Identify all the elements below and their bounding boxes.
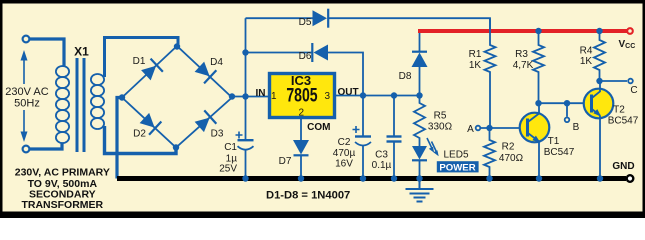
svg-text:16V: 16V (335, 159, 353, 170)
svg-text:230V, AC PRIMARY: 230V, AC PRIMARY (15, 166, 110, 178)
ground bus (117, 176, 626, 181)
node C1 tap (242, 93, 248, 99)
svg-text:470µ: 470µ (333, 148, 356, 159)
diode D1 (140, 59, 163, 82)
wire D7 to bus (300, 156, 302, 179)
wire T1 emitter to bus (538, 142, 540, 179)
svg-text:D1-D8 = 1N4007: D1-D8 = 1N4007 (266, 190, 350, 202)
transistor T2 (584, 81, 614, 118)
svg-text:C1: C1 (224, 142, 237, 153)
svg-text:230V AC: 230V AC (5, 86, 48, 98)
svg-text:GND: GND (612, 161, 634, 172)
resistor R5 (414, 96, 425, 147)
svg-text:4,7K: 4,7K (513, 60, 534, 71)
wire LED to bus (419, 161, 421, 179)
wire secondary bottom to bridge (105, 126, 177, 154)
svg-text:BC547: BC547 (608, 116, 639, 127)
node R4 on rail (596, 28, 602, 34)
svg-text:POWER: POWER (439, 162, 475, 173)
wire D5 to red rail (328, 18, 490, 31)
diode D5 (313, 9, 329, 28)
AC input terminal bottom (23, 146, 30, 153)
svg-text:D8: D8 (399, 71, 412, 82)
svg-text:C: C (630, 85, 637, 96)
AC source arrow (21, 50, 28, 142)
svg-text:D4: D4 (210, 57, 223, 68)
diode D2 (138, 111, 161, 134)
svg-text:A: A (467, 124, 474, 135)
svg-text:25V: 25V (219, 164, 237, 175)
svg-text:B: B (573, 122, 580, 133)
bridge rectifier frame (122, 46, 232, 148)
op-amp/regulator IC3 7805 (270, 74, 335, 118)
svg-text:TRANSFORMER: TRANSFORMER (21, 199, 103, 211)
wire D5 branch riser (245, 18, 247, 96)
svg-text:D5: D5 (299, 17, 312, 28)
node bridge right (229, 93, 235, 99)
node T1 collector (535, 100, 541, 106)
node regulator output at D8/R5 (416, 92, 422, 98)
svg-text:LED5: LED5 (443, 150, 468, 161)
wire IC pin2 down (300, 118, 302, 141)
svg-text:X1: X1 (74, 45, 89, 59)
svg-text:D6: D6 (299, 51, 312, 62)
label transformer description (15, 166, 110, 211)
wire R4 to node C (600, 80, 628, 82)
svg-text:470Ω: 470Ω (499, 153, 524, 164)
wire D6 run (246, 52, 314, 54)
svg-text:R1: R1 (469, 49, 482, 60)
node bridge top (174, 43, 180, 49)
resistor R2 (484, 128, 495, 179)
svg-text:D2: D2 (133, 129, 146, 140)
wire IC OUT run (335, 95, 420, 97)
wire bridge to IC IN (232, 96, 268, 98)
wire secondary top to bridge (105, 38, 179, 78)
svg-text:2: 2 (299, 108, 305, 119)
node T1 emitter on bus (536, 175, 542, 181)
wire T1 collector to T2 base (539, 102, 592, 104)
svg-text:IN: IN (256, 88, 266, 99)
diode D4 (193, 60, 216, 83)
capacitor C1 (238, 97, 254, 179)
node D7 on bus (298, 175, 304, 181)
node B terminal (565, 118, 570, 123)
svg-text:1: 1 (271, 91, 277, 102)
node R2 on bus (486, 175, 492, 181)
ground symbol (406, 181, 434, 202)
label POWER (437, 161, 479, 172)
node B tap (564, 100, 570, 106)
wire D8 anode down (419, 67, 421, 96)
svg-text:C2: C2 (338, 137, 351, 148)
node LED/ground on bus (416, 175, 422, 181)
node bridge left (119, 94, 125, 100)
resistor R4 (594, 33, 605, 81)
LED5 (412, 146, 427, 160)
node R3 on rail (535, 28, 541, 34)
node D6 tap (242, 49, 248, 55)
svg-text:T1: T1 (548, 136, 560, 147)
svg-text:BC547: BC547 (544, 147, 575, 158)
node R4/T2 collector (596, 78, 602, 84)
svg-text:330Ω: 330Ω (428, 122, 453, 133)
wire D8 cathode to Vcc rail (419, 31, 421, 51)
LED5 emission arrows (427, 138, 439, 156)
svg-text:R4: R4 (580, 46, 593, 57)
node C2 top (360, 92, 366, 98)
svg-text:R3: R3 (515, 49, 528, 60)
svg-text:R5: R5 (434, 111, 447, 122)
GND terminal (627, 175, 634, 182)
wire D6 to output node (328, 53, 363, 96)
svg-text:COM: COM (307, 122, 330, 133)
node T2 emitter on bus (597, 175, 603, 181)
svg-text:D3: D3 (211, 129, 224, 140)
svg-text:D1: D1 (133, 56, 146, 67)
node C terminal (628, 79, 633, 84)
Vcc terminal (627, 28, 633, 34)
svg-text:3: 3 (325, 91, 331, 102)
transistor T1 (520, 103, 550, 143)
capacitor C3 (387, 96, 402, 179)
transformer X1 (29, 39, 104, 152)
svg-text:R2: R2 (502, 142, 515, 153)
AC input terminal top (23, 36, 30, 43)
polarity plus C1 (236, 132, 243, 139)
node bridge bottom (173, 144, 179, 150)
svg-text:0.1µ: 0.1µ (372, 160, 392, 171)
wire D5 top run (246, 17, 314, 19)
diode D7 (293, 140, 309, 155)
node C3 top (391, 92, 397, 98)
wire T2 emitter to bus (599, 116, 601, 179)
capacitor C2 (355, 96, 371, 179)
svg-text:C3: C3 (375, 150, 388, 161)
svg-text:1K: 1K (469, 60, 482, 71)
diode D8 (412, 52, 428, 67)
svg-text:50Hz: 50Hz (14, 98, 40, 110)
resistor R3 (533, 33, 544, 103)
node C3 on bus (391, 175, 397, 181)
svg-text:D7: D7 (279, 156, 292, 167)
node R1/R2 junction (486, 125, 492, 131)
wire node B stub (566, 103, 568, 117)
polarity plus C2 (353, 126, 360, 133)
resistor R1 (485, 18, 496, 128)
Vcc rail (red) (418, 29, 628, 33)
node A terminal (476, 126, 481, 131)
diode D6 (312, 43, 328, 62)
node C2 on bus (360, 175, 366, 181)
svg-text:T2: T2 (613, 105, 625, 116)
node C1 on bus (242, 175, 248, 181)
wire node A to T1 base (481, 127, 528, 129)
wire bridge left to ground bus (117, 98, 122, 179)
diode D3 (193, 110, 216, 133)
svg-text:1K: 1K (580, 56, 593, 67)
svg-text:7805: 7805 (286, 84, 317, 106)
